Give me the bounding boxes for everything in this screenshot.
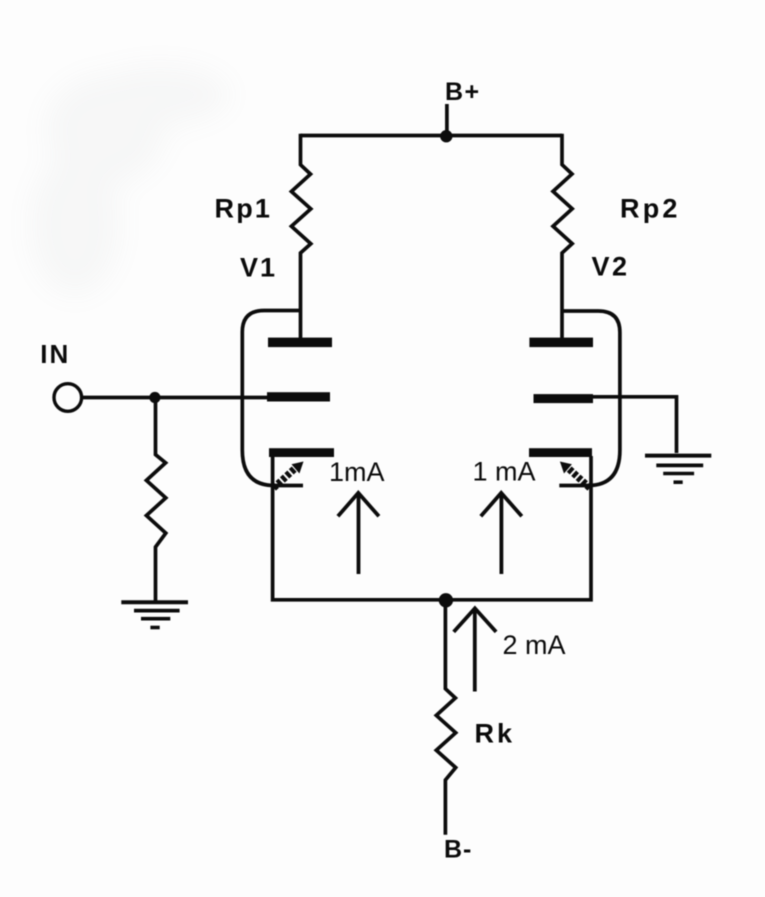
svg-text:2 mA: 2 mA (503, 630, 566, 660)
svg-text:V1: V1 (240, 253, 277, 283)
svg-text:V2: V2 (592, 252, 630, 282)
svg-text:IN: IN (40, 339, 70, 369)
svg-text:Rp1: Rp1 (215, 194, 273, 224)
svg-text:1 mA: 1 mA (473, 457, 536, 487)
svg-text:B+: B+ (445, 78, 481, 106)
svg-text:B-: B- (444, 836, 472, 864)
svg-text:Rk: Rk (475, 719, 516, 749)
svg-text:Rp2: Rp2 (620, 194, 681, 224)
svg-text:1mA: 1mA (329, 457, 385, 487)
